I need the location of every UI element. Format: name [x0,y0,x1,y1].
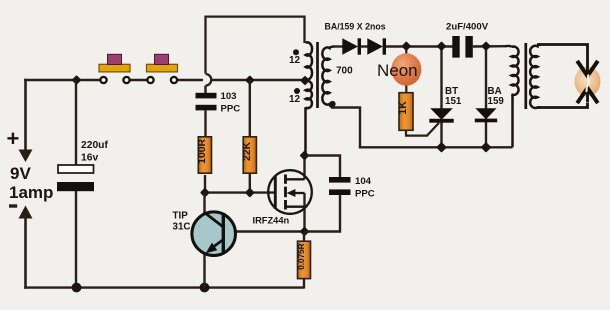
svg-text:0.075R: 0.075R [297,243,306,269]
diode D3 BA159 [475,47,505,148]
node junction BT anode [437,41,447,51]
node junction BA cathode [481,142,492,153]
wire cap to transformer2 [473,45,506,48]
svg-text:12: 12 [289,94,301,105]
svg-text:2uF/400V: 2uF/400V [446,22,489,33]
diode D1 BA159 [342,38,361,54]
svg-text:Neon: Neon [377,61,418,80]
node junction drain [300,151,310,161]
resistor R3 0.075R [297,232,311,289]
svg-text:159: 159 [488,96,505,107]
node polarity dot 700 [329,101,335,107]
svg-text:700: 700 [336,66,353,77]
flash lamp tube [575,61,601,102]
capacitor C1 220uf 16v [57,80,108,288]
svg-text:TIP: TIP [173,211,189,222]
transformer T2 core [524,43,527,109]
svg-text:1amp: 1amp [9,183,53,202]
node junction BT cathode [436,142,447,153]
wire top loop rail [206,17,305,74]
wire to center tap [212,79,307,81]
node junction BA anode [481,41,491,51]
capacitor C4 2uF 400V [446,22,489,58]
node junction 22K top [245,75,255,85]
svg-text:+: + [7,126,20,151]
svg-text:IRFZ44n: IRFZ44n [253,216,290,226]
node polarity dot 12 bottom [294,88,300,94]
node junction neon [401,41,411,51]
thyristor BT151 [429,47,462,148]
wire secondary top [333,45,343,47]
wire drain to 104 [305,156,341,178]
resistor R4 1K [397,93,413,131]
capacitor C3 104 PPC [329,176,375,200]
wire 104 to source [305,195,341,232]
node junction center tap [300,76,310,86]
wire between diodes [361,45,368,47]
neon lamp [377,47,421,94]
node polarity dot 12 top [293,49,299,55]
transformer T2 primary winding [505,46,519,147]
svg-text:BA/159 X 2nos: BA/159 X 2nos [325,22,386,32]
battery B1 9V 1amp [24,79,27,289]
transformer T1 secondary winding 700 [322,47,334,108]
wire hop crossover [206,74,212,86]
svg-text:9V: 9V [10,164,31,183]
node junction battery top [72,75,82,85]
resistor R1 100R [197,137,212,193]
svg-text:1K: 1K [397,101,409,115]
svg-text:16v: 16v [81,153,98,164]
node junction bottom cap [72,283,82,293]
node junction under 100R [200,188,210,198]
wire gate rail [205,191,276,193]
transformer T2 secondary winding [530,45,541,108]
node junction source [300,227,310,237]
resistor R2 22K [242,80,257,193]
wire secondary bottom rail [331,108,513,148]
transistor Q1 TIP31C [173,193,306,288]
wire bottom rail [24,286,304,288]
svg-text:151: 151 [445,96,462,107]
wire 1K to gate [406,123,439,136]
node junction under 22K [245,188,255,198]
svg-text:103: 103 [221,91,237,102]
transformer T1 primary winding 12-0-12 [306,42,313,156]
svg-text:104: 104 [355,176,372,187]
node junction bottom emitter [200,283,210,293]
wire flash loop [537,45,588,108]
switch S2 [147,54,178,83]
svg-text:PPC: PPC [355,189,375,200]
mosfet Q2 IRFZ44n [253,156,312,232]
transformer T1 core [316,42,319,108]
svg-text:31C: 31C [173,222,191,233]
wire switch link [127,79,151,82]
diode D2 BA159 [367,38,386,54]
wire top rail left [24,79,104,82]
capacitor C2 103 PPC [196,86,241,138]
svg-text:12: 12 [289,55,301,66]
wire diode output rail [386,45,453,47]
svg-text:100R: 100R [197,138,208,163]
svg-text:PPC: PPC [221,104,241,115]
svg-text:22K: 22K [242,141,253,161]
wire after switch 2 [174,79,203,81]
switch S1 [99,54,130,83]
svg-text:220uf: 220uf [81,140,108,151]
